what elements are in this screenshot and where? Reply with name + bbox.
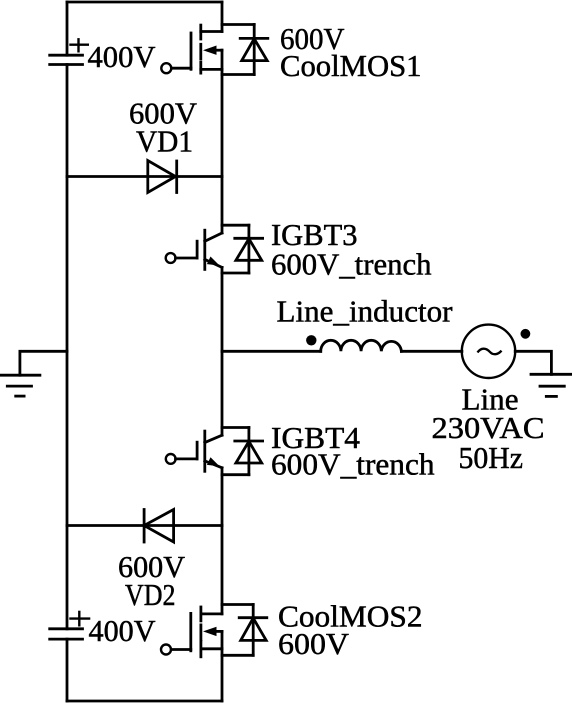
wire node VD1 down to IGBT3 collector xyxy=(221,177,224,234)
body diode of CoolMOS2 xyxy=(222,605,267,656)
diode VD2 xyxy=(144,510,174,543)
transistor IGBT4 base bar xyxy=(203,431,206,471)
wire VD2 branch xyxy=(67,524,222,527)
svg-text:600V_trench: 600V_trench xyxy=(271,247,432,282)
freewheel diode of IGBT3 xyxy=(222,225,263,273)
transistor IGBT3 emitter diagonal with arrow xyxy=(205,257,222,268)
wire inductor to AC source xyxy=(401,350,462,353)
transistor CoolMOS1 channel dashes xyxy=(199,25,202,73)
capacitor C2 plates xyxy=(50,629,83,639)
wire IGBT4 emitter down to node VD2 xyxy=(221,468,224,526)
capacitor C2 plus polarity mark xyxy=(69,611,90,627)
svg-text:50Hz: 50Hz xyxy=(459,440,524,475)
body diode of CoolMOS1 xyxy=(222,25,268,75)
transistor IGBT4 emitter diagonal with arrow xyxy=(205,457,222,468)
transistor CoolMOS1 gate bar xyxy=(190,33,193,69)
transistor CoolMOS1 source lead xyxy=(201,68,222,71)
transistor CoolMOS2 body arrow xyxy=(203,627,222,636)
wire CoolMOS1 source down to node VD1 xyxy=(221,50,224,176)
transistor IGBT4 gate bar xyxy=(196,442,199,459)
wire CoolMOS2 source down to bottom rail xyxy=(221,631,224,701)
transistor CoolMOS1 drain lead xyxy=(201,30,222,33)
transistor CoolMOS1 gate circle xyxy=(161,63,171,73)
transistor IGBT3 gate circle xyxy=(166,253,176,263)
freewheel diode of IGBT4 xyxy=(222,428,263,475)
capacitor C1 plates xyxy=(50,55,83,64)
wire IGBT3 emitter down to mid node xyxy=(221,267,224,351)
wire left rail middle segment xyxy=(66,65,69,629)
diode VD1 xyxy=(148,161,177,193)
transistor IGBT4 collector diagonal xyxy=(205,435,222,442)
polarity dot at AC source xyxy=(521,329,531,339)
svg-text:600V: 600V xyxy=(278,626,350,661)
svg-text:VD2: VD2 xyxy=(125,577,176,612)
ground right xyxy=(531,374,572,396)
wire VD1 branch xyxy=(67,175,222,178)
wire AC source to right ground xyxy=(515,351,551,374)
transistor IGBT3 collector diagonal xyxy=(205,233,222,241)
capacitor C1 plus polarity mark xyxy=(69,38,89,52)
transistor IGBT3 gate lead xyxy=(176,257,198,260)
transistor CoolMOS2 drain lead xyxy=(201,613,222,616)
svg-text:400V: 400V xyxy=(89,613,157,648)
wire top rail xyxy=(67,1,222,4)
inductor L1 Line_inductor xyxy=(321,340,402,351)
transistor CoolMOS2 gate circle xyxy=(161,645,171,655)
polarity dot at inductor xyxy=(306,335,316,345)
svg-text:VD1: VD1 xyxy=(136,124,193,159)
wire bottom rail xyxy=(67,700,222,703)
transistor CoolMOS2 gate bar xyxy=(189,613,192,650)
transistor CoolMOS1 gate lead xyxy=(171,67,191,70)
transistor IGBT3 base bar xyxy=(203,230,206,269)
wire left rail upper segment xyxy=(66,2,69,55)
svg-text:400V: 400V xyxy=(88,39,157,74)
AC source sine symbol xyxy=(478,349,502,355)
transistor IGBT4 gate circle xyxy=(166,454,176,464)
transistor CoolMOS2 channel dashes xyxy=(199,607,202,657)
ground left xyxy=(0,375,40,396)
wire node VD2 down to CoolMOS2 drain xyxy=(221,526,224,614)
transistor CoolMOS2 gate lead xyxy=(171,648,191,651)
wire mid node down to IGBT4 collector xyxy=(221,351,224,435)
svg-text:CoolMOS1: CoolMOS1 xyxy=(280,48,422,83)
wire left ground branch xyxy=(20,351,67,375)
svg-text:600V_trench: 600V_trench xyxy=(271,447,435,482)
wire CoolMOS1 drain to top rail xyxy=(221,2,224,32)
transistor IGBT3 gate bar xyxy=(196,241,199,258)
transistor CoolMOS1 body arrow xyxy=(203,46,222,55)
wire left rail lower segment xyxy=(66,639,69,701)
transistor IGBT4 gate lead xyxy=(176,457,198,460)
svg-text:Line_inductor: Line_inductor xyxy=(277,294,454,329)
AC source V1 circle xyxy=(462,325,515,378)
transistor CoolMOS2 source lead xyxy=(201,647,222,650)
wire mid node to inductor xyxy=(222,350,321,353)
